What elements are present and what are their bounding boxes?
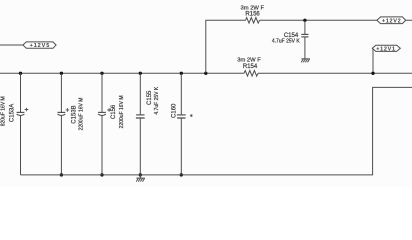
capacitor C153B (polarized) (58, 108, 70, 115)
wire ground return bus (21, 87, 412, 174)
junction dot C155 top (139, 72, 142, 75)
svg-text:+12V5: +12V5 (30, 43, 51, 49)
junction dot C153B top (60, 72, 63, 75)
wire C153B top leg (60, 73, 62, 112)
svg-text:R154: R154 (243, 64, 258, 70)
svg-text:2200uF 16V M: 2200uF 16V M (119, 95, 125, 128)
wire C160 top leg (180, 73, 182, 115)
junction dot +12V1 drop (371, 72, 374, 75)
capacitor C153A (polarized) (17, 108, 29, 116)
wire main bus right segment (net +12V1) (258, 72, 412, 74)
svg-text:C153B: C153B (72, 105, 78, 123)
capacitor C160 (177, 114, 193, 118)
resistor R154 (244, 71, 258, 77)
svg-text:4.7uF 25V K: 4.7uF 25V K (272, 38, 300, 44)
svg-text:C155: C155 (147, 90, 153, 105)
wire C154 top leg (304, 20, 306, 34)
svg-text:2200uF 16V M: 2200uF 16V M (79, 98, 85, 131)
wire C155 top leg (139, 73, 141, 115)
wire C153A top leg (20, 73, 22, 112)
wire C156 top leg (101, 73, 103, 112)
wire C156 bottom leg (101, 116, 103, 175)
junction dot C156 bottom (100, 173, 103, 176)
junction dot C153A top (19, 72, 22, 75)
wire main bus left segment (net +12V5) (0, 72, 244, 74)
svg-text:R156: R156 (245, 11, 260, 17)
net flag +12V1 (372, 45, 400, 52)
junction dot C154 tap (303, 19, 306, 22)
svg-text:+12V1: +12V1 (376, 47, 396, 53)
net flag +12V5 (23, 42, 56, 49)
wire C153A bottom leg (20, 116, 22, 175)
junction dot C160 top (180, 72, 183, 75)
svg-text:820uF 16V M: 820uF 16V M (0, 96, 6, 126)
wire C154 bottom leg (304, 37, 306, 59)
junction dot C160 bottom (180, 173, 183, 176)
ground symbol (earth) at C154 (301, 59, 310, 63)
svg-text:3m 2W F: 3m 2W F (237, 57, 261, 63)
svg-text:C153A: C153A (9, 104, 15, 122)
junction dot C156 top (100, 72, 103, 75)
svg-text:C160: C160 (171, 103, 177, 118)
wire +12V1 flag drop to bus (372, 49, 374, 74)
wire +12V2 flag to right edge (406, 19, 412, 21)
svg-text:+12V2: +12V2 (382, 18, 402, 24)
wire +12V5 stub from left edge (0, 44, 23, 46)
capacitor C156 (polarized) (98, 108, 111, 115)
junction dot C155 bottom (139, 173, 142, 176)
ground symbol (earth) on bottom bus (136, 175, 145, 182)
junction dot C153B bottom (60, 173, 63, 176)
junction dot bus at riser (204, 72, 207, 75)
capacitor C154 (301, 34, 308, 37)
net flag +12V2 (377, 17, 406, 25)
wire C153B bottom leg (60, 116, 62, 175)
wire C155 bottom leg (139, 118, 141, 175)
svg-text:4.7uF 25V K: 4.7uF 25V K (154, 86, 160, 114)
wire R156 to +12V2 flag (net +12V2) (260, 19, 378, 21)
resistor R156 (246, 18, 260, 24)
capacitor C155 (136, 115, 145, 118)
wire C160 bottom leg (180, 118, 182, 175)
svg-text:C156: C156 (111, 104, 117, 119)
wire riser to R156 branch (206, 20, 246, 73)
